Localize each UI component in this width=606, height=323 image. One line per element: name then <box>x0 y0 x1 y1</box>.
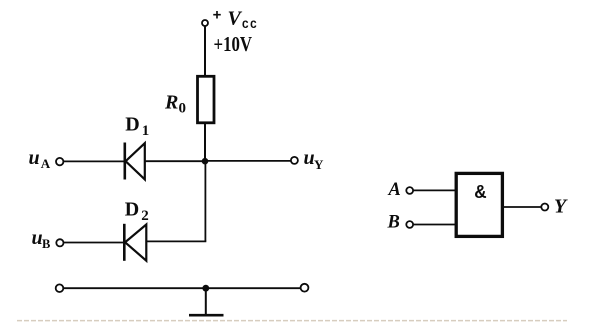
svg-text:2: 2 <box>141 208 149 224</box>
bottom rail wire <box>60 287 305 289</box>
rail junction <box>202 285 209 292</box>
terminal VCC <box>202 20 208 26</box>
terminal A <box>406 187 413 194</box>
terminal uB <box>56 239 63 246</box>
svg-text:+10V: +10V <box>214 33 253 56</box>
svg-text:0: 0 <box>179 101 187 117</box>
svg-text:D: D <box>125 199 139 221</box>
wire VCC to R0 <box>204 26 206 76</box>
svg-text:u: u <box>32 227 43 249</box>
label +10V <box>214 33 253 56</box>
resistor R0 <box>198 76 215 123</box>
node junction <box>202 158 209 165</box>
wire R0 to node <box>204 124 206 162</box>
wire D1 to node <box>145 160 205 162</box>
wire corner to D2 <box>147 240 207 242</box>
terminal rail left <box>56 284 64 292</box>
ground <box>189 288 224 315</box>
label uY <box>304 147 325 172</box>
svg-text:B: B <box>42 237 50 251</box>
wire node to uY <box>205 160 291 162</box>
svg-text:A: A <box>388 180 401 200</box>
svg-text:u: u <box>29 147 40 169</box>
svg-text:A: A <box>41 156 51 171</box>
diode D2 <box>124 224 146 261</box>
wire node down to corner <box>204 161 206 241</box>
label uA <box>29 147 51 171</box>
svg-text:1: 1 <box>142 123 150 139</box>
svg-text:&: & <box>475 182 487 204</box>
svg-text:CC: CC <box>242 20 258 32</box>
label uB <box>32 227 51 251</box>
terminal B <box>406 221 413 228</box>
terminal rail right <box>301 284 309 292</box>
wire uB to D2 <box>63 242 124 244</box>
svg-text:+: + <box>213 8 222 25</box>
diode D1 <box>125 143 145 180</box>
svg-text:V: V <box>228 8 243 30</box>
terminal Y <box>541 204 548 211</box>
svg-text:B: B <box>387 213 400 233</box>
svg-text:R: R <box>164 92 178 114</box>
svg-text:u: u <box>304 147 315 169</box>
wire A to gate <box>413 189 456 191</box>
svg-text:Y: Y <box>554 196 568 218</box>
and-gate U1 <box>456 173 502 236</box>
terminal uA <box>56 158 63 165</box>
wire B to gate <box>413 224 456 226</box>
label D1 <box>125 114 149 140</box>
label R0 <box>164 92 186 117</box>
wire uA to D1 <box>63 160 124 162</box>
terminal uY <box>291 157 298 164</box>
label D2 <box>125 199 149 225</box>
svg-text:Y: Y <box>314 157 324 172</box>
wire gate to Y <box>502 206 541 208</box>
svg-text:D: D <box>125 114 139 136</box>
label +VCC <box>213 8 259 33</box>
